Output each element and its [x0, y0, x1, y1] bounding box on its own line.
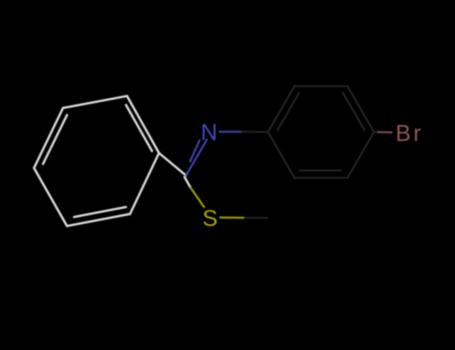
- ring bond V1-V2: [34, 108, 63, 168]
- bond S to methyl, dark half: [244, 217, 268, 219]
- ring bond R-BR: [348, 132, 375, 178]
- inner aromatic line BR-BL: [300, 170, 341, 172]
- bond ring V4 to central C: [159, 153, 186, 176]
- inner aromatic line L-TL: [278, 93, 300, 130]
- ring bond TL-TR: [295, 85, 348, 87]
- C=N double bond (blue): [186, 132, 241, 176]
- right bromophenyl ring (very dark): [268, 86, 378, 178]
- ring bond TR-R: [348, 86, 375, 132]
- inner aromatic line V5-V6: [74, 207, 126, 217]
- ring bond V5-V6: [67, 214, 130, 226]
- ring bond V6-V1: [34, 168, 67, 226]
- ring bond V2-V3: [63, 96, 127, 108]
- inner aromatic line V3-V4: [126, 105, 152, 151]
- bond C to S lower half (yellow): [191, 188, 205, 208]
- bond C to S upper half (gray): [185, 177, 191, 188]
- ring bond BR-BL: [295, 177, 348, 179]
- inner aromatic line V1-V2: [43, 115, 67, 164]
- inner aromatic line TR-R: [343, 93, 365, 130]
- C=N inner line: [190, 141, 200, 162]
- bond ring to Br, dark half: [374, 131, 378, 133]
- ring bond BL-L: [268, 132, 295, 178]
- svg-text:N: N: [201, 119, 218, 145]
- ring bond V3-V4: [127, 96, 159, 153]
- ring bond L-TL: [268, 86, 295, 132]
- left phenyl ring (bright): [34, 96, 191, 226]
- bond to Br, red half: [378, 131, 393, 133]
- C=N main line: [186, 140, 207, 176]
- bond N to aryl, blue half: [220, 131, 242, 133]
- svg-text:Br: Br: [396, 120, 424, 146]
- bond S to methyl, yellow half: [220, 217, 245, 219]
- bond N to aryl, dark half: [241, 131, 268, 133]
- ring bond V4-V5: [130, 153, 159, 214]
- svg-text:S: S: [202, 205, 217, 231]
